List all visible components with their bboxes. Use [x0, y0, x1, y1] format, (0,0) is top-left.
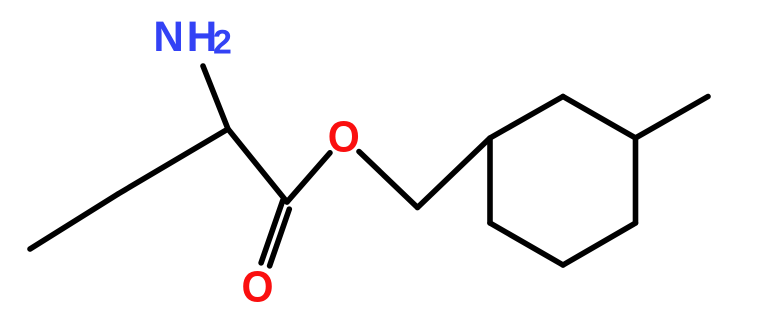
svg-text:O: O — [241, 262, 273, 312]
wire ethyl bond 1 — [118, 129, 228, 194]
svg-text:O: O — [328, 112, 360, 162]
label amine N — [153, 13, 183, 60]
svg-text:2: 2 — [213, 24, 232, 62]
wire C=O double bond — [261, 201, 283, 263]
wire N-C bond — [203, 66, 228, 129]
label amine H — [187, 13, 217, 60]
wire ring bond LL-UL — [487, 138, 493, 223]
wire ring bond UR-LR — [633, 138, 639, 223]
wire C-C bond to carbonyl — [228, 129, 287, 202]
wire ring bond LR-B — [563, 223, 636, 265]
wire ethyl bond 2 — [30, 194, 118, 249]
wire CH2-ring bond — [418, 138, 491, 208]
wire ring bond B-LL — [490, 223, 563, 265]
wire ring bond UL-T — [490, 97, 563, 139]
label ester O — [328, 112, 360, 162]
wire C-O ester bond — [287, 153, 330, 202]
wire methyl bond — [636, 97, 709, 139]
label carbonyl O — [241, 262, 273, 312]
label NH2 subscript — [213, 24, 232, 62]
wire O-CH2 bond — [359, 152, 418, 208]
svg-text:N: N — [153, 13, 183, 60]
wire ring bond T-UR — [563, 97, 636, 139]
